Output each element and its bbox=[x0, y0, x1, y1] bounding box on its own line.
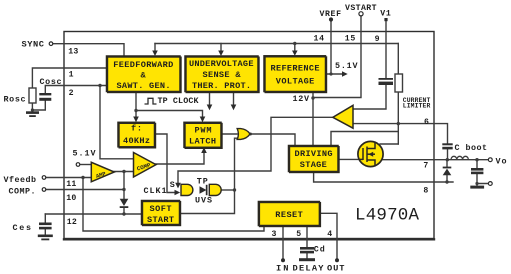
gate AND CLK1 bbox=[181, 184, 193, 195]
wire amp output down to diode bbox=[123, 172, 125, 199]
svg-text:UNDERVOLTAGE: UNDERVOLTAGE bbox=[189, 59, 254, 69]
svg-text:C boot: C boot bbox=[455, 143, 488, 153]
wire Ces ground stem bbox=[44, 229, 46, 235]
wire Rosc Cosc ground bbox=[32, 101, 45, 110]
wire undervoltage arrow 1 bbox=[209, 92, 211, 106]
svg-text:COMP.: COMP. bbox=[9, 186, 36, 196]
svg-text:S: S bbox=[170, 180, 175, 190]
wire reset pin3 bbox=[282, 226, 284, 259]
wire Ces cap stem bbox=[44, 214, 46, 223]
wire UVS node to soft start bbox=[180, 190, 235, 214]
svg-text:10: 10 bbox=[66, 194, 76, 203]
wire arrow into UNDERVOLTAGE bbox=[220, 44, 222, 52]
svg-text:8: 8 bbox=[423, 187, 428, 196]
node comp pin10 junction bbox=[122, 188, 125, 191]
svg-text:11: 11 bbox=[66, 180, 76, 189]
terminal VSTART bbox=[359, 12, 363, 16]
svg-text:Rosc: Rosc bbox=[4, 94, 26, 104]
svg-text:FEEDFORWARD: FEEDFORWARD bbox=[113, 60, 173, 70]
arrow 5.1V output bbox=[342, 71, 348, 77]
node 12V junction bbox=[311, 96, 314, 99]
wire arrow into oscillator bbox=[135, 111, 137, 119]
wire 5.1V ref to error amp bbox=[80, 164, 92, 166]
svg-text:START: START bbox=[147, 215, 174, 225]
wire freewheeling diode stems bbox=[446, 160, 448, 167]
svg-text:1: 1 bbox=[69, 71, 74, 80]
arrow into oscillator bbox=[133, 117, 139, 123]
svg-text:Vfeedb: Vfeedb bbox=[4, 175, 37, 185]
arrow into FEEDFORWARD bbox=[152, 51, 158, 57]
op-amp error AMP bbox=[91, 162, 114, 182]
svg-text:&: & bbox=[141, 71, 147, 81]
wire pin2 Cosc sawtooth bbox=[45, 86, 106, 94]
svg-text:SOFT: SOFT bbox=[150, 204, 172, 214]
terminal 5.1V ref tap bbox=[76, 163, 80, 167]
svg-text:Vo: Vo bbox=[496, 156, 507, 166]
terminal IN bbox=[281, 258, 285, 262]
node UVS output junction bbox=[233, 188, 236, 191]
op-amp PWM COMP bbox=[134, 153, 157, 178]
svg-text:4: 4 bbox=[327, 230, 332, 239]
resistor Rosc bbox=[29, 88, 36, 103]
arrow clock into latch bbox=[200, 117, 206, 123]
ground osc bbox=[26, 111, 39, 117]
svg-text:2: 2 bbox=[69, 89, 74, 98]
svg-text:7: 7 bbox=[423, 161, 428, 170]
arrow into REFERENCE bbox=[292, 51, 298, 56]
wire pin8 external bbox=[434, 181, 453, 183]
wire driving stage to pin8 bbox=[314, 172, 434, 183]
blocks bbox=[107, 56, 340, 227]
svg-text:Cosc: Cosc bbox=[40, 77, 62, 87]
wire mosfet source pin7 bbox=[383, 159, 435, 161]
terminal Vo bbox=[488, 158, 492, 162]
arrow undervoltage 2 bbox=[231, 105, 237, 111]
capacitor C out bbox=[471, 168, 483, 174]
wire UVS gate output bbox=[222, 189, 235, 191]
svg-text:9: 9 bbox=[375, 35, 380, 44]
svg-text:UVS: UVS bbox=[195, 196, 212, 206]
capacitor C boot bbox=[442, 143, 452, 149]
svg-text:L4970A: L4970A bbox=[355, 206, 419, 226]
wire undervoltage arrow 2 bbox=[233, 92, 235, 106]
wire node A to driving stage supply bbox=[331, 132, 398, 146]
svg-text:SAWT. GEN.: SAWT. GEN. bbox=[117, 81, 171, 91]
wire sawtooth down to COMP bbox=[100, 86, 134, 159]
wire arrow into REFERENCE bbox=[294, 44, 296, 52]
terminal Vfeedb bbox=[42, 176, 46, 180]
block PWM LATCH bbox=[184, 122, 221, 147]
node sense pin6 junction bbox=[397, 122, 400, 125]
gate OR pwm bbox=[237, 129, 250, 140]
svg-text:VREF: VREF bbox=[320, 10, 342, 19]
wire Vfeedb pin11 bbox=[46, 177, 92, 179]
svg-text:DELAY: DELAY bbox=[293, 263, 325, 273]
node TP clock tee bbox=[134, 109, 137, 112]
wire node A to mosfet drain bbox=[380, 143, 398, 145]
svg-text:14: 14 bbox=[314, 35, 325, 44]
wire 5.1V arrow from reference bbox=[326, 73, 344, 75]
wire pin7 to Vo bbox=[434, 159, 488, 161]
wire reset pin5 bbox=[306, 226, 308, 247]
chip outline bbox=[64, 32, 434, 239]
svg-text:3: 3 bbox=[272, 230, 277, 239]
wire TP clock to PWM latch bbox=[136, 111, 203, 119]
svg-text:5.1V: 5.1V bbox=[73, 149, 97, 159]
capacitor current limit filter bbox=[379, 78, 394, 85]
ground Cd bbox=[299, 258, 315, 261]
terminal COMP bbox=[42, 188, 46, 192]
svg-text:VSTART: VSTART bbox=[345, 4, 377, 13]
wire V1 line bbox=[385, 21, 387, 78]
pulse waveform symbol bbox=[145, 98, 157, 104]
wire pin12 Ces soft start bbox=[45, 213, 141, 215]
svg-text:40KHz: 40KHz bbox=[123, 136, 150, 146]
op-amp current limit comparator bbox=[333, 105, 353, 128]
wire rail drop to sense resistor R sense bbox=[397, 44, 399, 75]
svg-text:SENSE &: SENSE & bbox=[203, 70, 242, 80]
svg-text:12: 12 bbox=[67, 218, 77, 227]
wire VREF line bbox=[330, 22, 332, 75]
terminal circles bbox=[42, 12, 492, 192]
wire reset pin4 out bbox=[320, 213, 338, 258]
terminal V1 bbox=[384, 18, 387, 21]
svg-text:f:: f: bbox=[131, 123, 142, 133]
inductor L output coil bbox=[451, 156, 468, 159]
svg-text:PWM: PWM bbox=[195, 125, 212, 135]
wire OR output to driving stage bbox=[249, 134, 295, 146]
wire output cap stem bbox=[476, 160, 478, 168]
ground Ces bbox=[38, 235, 53, 241]
wire arrow into FEEDFORWARD bbox=[154, 44, 156, 52]
arrow CLK1 into gate bbox=[175, 190, 181, 196]
resistor R sense current limiter bbox=[395, 74, 403, 92]
wire UVS node to OR input bbox=[235, 138, 238, 190]
ground C out bbox=[470, 186, 484, 189]
svg-text:6: 6 bbox=[424, 118, 429, 127]
wire output cap to ground and return bbox=[477, 174, 488, 183]
svg-text:TP CLOCK: TP CLOCK bbox=[158, 96, 200, 106]
svg-text:STAGE: STAGE bbox=[300, 160, 327, 170]
svg-text:LATCH: LATCH bbox=[189, 137, 216, 147]
svg-text:REFERENCE: REFERENCE bbox=[271, 64, 320, 74]
svg-text:13: 13 bbox=[68, 48, 78, 57]
wire pin6 current limit input bbox=[354, 123, 435, 125]
wire VSTART to 12V node bbox=[313, 16, 361, 98]
wire feedforward rail from V1 bbox=[155, 43, 398, 45]
block FEEDFORWARD U-A bbox=[107, 56, 181, 92]
block SOFT START bbox=[142, 201, 180, 225]
wire driving stage gate to mosfet bbox=[338, 158, 359, 160]
node OR output nub bbox=[249, 133, 252, 136]
svg-text:DRIVING: DRIVING bbox=[295, 149, 333, 159]
node pin2 sawtooth junction bbox=[98, 84, 101, 87]
node switch column junction bbox=[446, 158, 449, 161]
wire SYNC to feedforward bbox=[53, 44, 124, 56]
svg-text:OUT: OUT bbox=[327, 263, 345, 273]
svg-text:V1: V1 bbox=[380, 10, 391, 19]
svg-text:TP: TP bbox=[197, 177, 208, 187]
node diode pin8 junction bbox=[445, 180, 448, 183]
svg-text:15: 15 bbox=[345, 35, 356, 44]
transistor power MOSFET bbox=[358, 141, 383, 166]
block REFERENCE VOLTAGE bbox=[264, 56, 326, 92]
diode freewheeling bbox=[443, 167, 452, 176]
terminal VREF bbox=[329, 17, 333, 21]
wire diode to soft start line bbox=[123, 208, 125, 215]
node ground Rosc junction bbox=[31, 108, 34, 111]
svg-text:5: 5 bbox=[296, 230, 301, 239]
terminal OUT bbox=[335, 258, 339, 262]
wire pin1 Rosc bbox=[32, 68, 106, 88]
svg-text:VOLTAGE: VOLTAGE bbox=[276, 76, 315, 86]
wire reference bottom to driving stage 12V bbox=[312, 92, 314, 146]
block UNDERVOLTAGE bbox=[185, 56, 258, 92]
wire COMP pin10 bbox=[46, 189, 124, 191]
svg-text:SYNC: SYNC bbox=[22, 40, 45, 50]
block oscillator 40KHz bbox=[118, 122, 155, 147]
wire Vfeedb to reset rail bbox=[83, 178, 264, 232]
wire Cd ground stem bbox=[306, 253, 308, 258]
arrow S into gate bbox=[175, 183, 181, 189]
node Vfeedb reset junction bbox=[81, 176, 84, 179]
capacitor Cd bbox=[300, 247, 314, 253]
node output return junction bbox=[475, 182, 478, 185]
svg-text:LIMITER: LIMITER bbox=[403, 103, 431, 110]
node VREF 5.1V junction bbox=[329, 72, 332, 75]
wire current limiter output to S gate bbox=[178, 117, 333, 183]
wire sense resistor to node A bbox=[397, 92, 399, 144]
wire COMP output to latch R bbox=[156, 152, 205, 164]
svg-text:12V: 12V bbox=[293, 94, 310, 104]
svg-text:5.1V: 5.1V bbox=[335, 61, 358, 71]
wire C boot to switch node bbox=[447, 150, 449, 160]
capacitor Ces bbox=[39, 223, 52, 230]
svg-text:Ces: Ces bbox=[13, 223, 32, 233]
capacitor Cosc bbox=[39, 93, 51, 101]
wire latch output to OR gate bbox=[221, 133, 237, 135]
wire amp output to COMP bbox=[114, 171, 134, 173]
node output cap junction bbox=[475, 158, 478, 161]
arrow into UNDERVOLTAGE bbox=[218, 51, 224, 57]
terminal SYNC bbox=[49, 42, 53, 46]
arrow TP marker bbox=[200, 186, 207, 194]
wire clock TP from sawtooth gen bbox=[135, 92, 137, 111]
terminal return bbox=[488, 182, 492, 186]
wire V1 cap to comparator input bbox=[354, 86, 387, 110]
svg-text:RESET: RESET bbox=[275, 210, 303, 220]
arrowheads bbox=[133, 51, 348, 196]
wire pin6 bootstrap external bbox=[434, 124, 448, 143]
arrow comp into latch R bbox=[201, 147, 207, 153]
gate AND UVS bbox=[209, 184, 221, 195]
arrow undervoltage 1 bbox=[207, 105, 213, 111]
diode soft start clamp bbox=[120, 199, 129, 208]
wire oscillator CLK1 to gate bbox=[155, 134, 176, 193]
node soft start diode junction bbox=[122, 212, 125, 215]
node rail reference junction bbox=[293, 42, 296, 45]
node amp output junction bbox=[122, 170, 125, 173]
svg-text:Cd: Cd bbox=[314, 245, 325, 255]
block RESET bbox=[258, 202, 319, 226]
block DRIVING STAGE bbox=[289, 146, 339, 172]
svg-text:CLK1: CLK1 bbox=[144, 186, 167, 196]
svg-text:THER. PROT.: THER. PROT. bbox=[192, 81, 251, 91]
